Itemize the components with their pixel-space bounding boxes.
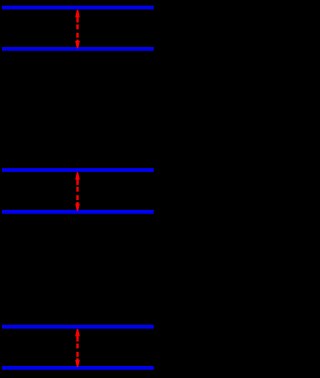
energy level line E5 (pair 3 lower)	[2, 366, 154, 370]
energy level line E3 (pair 2 lower)	[2, 210, 154, 214]
transition arrow 2 (pair 2, red dashed double-headed)	[75, 172, 80, 211]
transition arrow 1 (pair 1, red dashed double-headed)	[75, 10, 80, 48]
transition arrow 3 (pair 3, red dashed double-headed)	[75, 329, 80, 367]
energy level line E4 (pair 2 upper)	[2, 168, 154, 172]
energy level line E6 (pair 3 upper)	[2, 325, 154, 329]
energy level line E2 (pair 1 upper)	[2, 6, 154, 10]
energy level line E1 (pair 1 lower)	[2, 47, 154, 51]
